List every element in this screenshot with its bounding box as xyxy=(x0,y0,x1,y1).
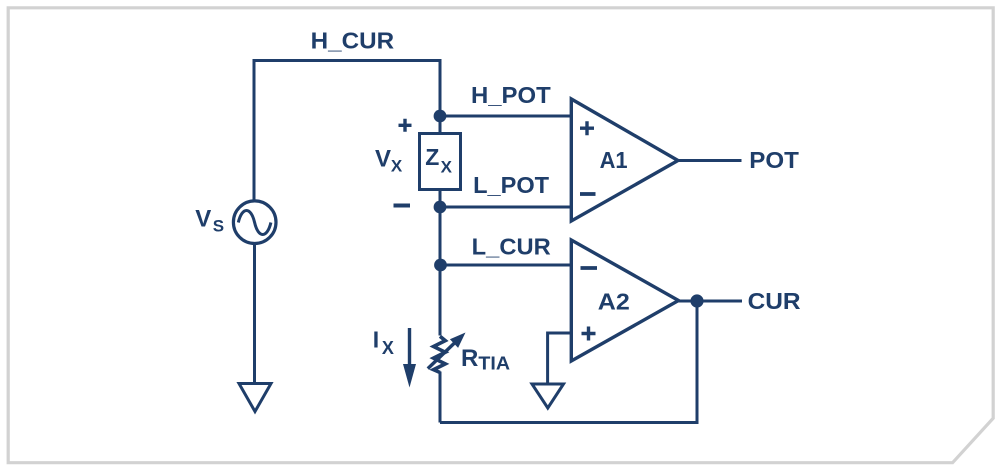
svg-text:X: X xyxy=(441,158,453,177)
wire bottom feedback xyxy=(440,301,697,423)
current Ix arrow xyxy=(408,328,411,366)
op-amp A1 plus xyxy=(580,121,594,135)
minus sign Zx xyxy=(394,204,411,208)
svg-text:POT: POT xyxy=(749,147,799,173)
node L_CUR xyxy=(434,259,447,272)
svg-text:H_POT: H_POT xyxy=(471,82,551,108)
svg-text:V: V xyxy=(195,205,211,232)
source VS circle xyxy=(233,201,276,244)
svg-text:R: R xyxy=(461,345,478,372)
node CUR output xyxy=(690,294,703,307)
svg-text:X: X xyxy=(391,157,403,176)
wire Zx to bottom xyxy=(439,190,442,336)
wire A2 output xyxy=(679,300,743,303)
svg-text:L_CUR: L_CUR xyxy=(472,234,551,260)
svg-text:L_POT: L_POT xyxy=(473,172,549,198)
wire L_CUR xyxy=(440,264,571,267)
svg-text:S: S xyxy=(213,217,224,236)
sine wave xyxy=(238,211,271,235)
wire L_POT xyxy=(440,206,571,209)
wire A2 plus input to ground xyxy=(548,333,571,384)
resistor RTIA arrow xyxy=(428,343,455,369)
impedance Zx box xyxy=(420,134,461,190)
ground VS xyxy=(239,384,271,412)
resistor RTIA zigzag xyxy=(434,336,446,372)
plus sign Zx xyxy=(399,119,412,132)
svg-text:Z: Z xyxy=(425,144,439,170)
wire VS bottom xyxy=(253,244,256,384)
op-amp A1 minus xyxy=(580,192,596,196)
svg-text:A2: A2 xyxy=(598,289,630,315)
ground A2 xyxy=(532,384,564,408)
svg-text:A1: A1 xyxy=(600,147,628,173)
svg-text:CUR: CUR xyxy=(748,288,801,314)
svg-text:X: X xyxy=(382,338,394,358)
svg-text:I: I xyxy=(373,327,379,353)
op-amp A2 plus xyxy=(582,327,596,341)
node H_POT xyxy=(434,110,447,123)
svg-text:TIA: TIA xyxy=(478,354,510,374)
svg-text:H_CUR: H_CUR xyxy=(311,28,395,54)
wire below resistor xyxy=(439,372,442,423)
op-amp A1 xyxy=(571,99,678,221)
wire A1 output xyxy=(678,159,742,162)
wire H_CUR top xyxy=(254,61,440,202)
node L_POT xyxy=(434,201,447,214)
op-amp A2 xyxy=(571,240,678,361)
wire H_POT xyxy=(440,115,571,118)
op-amp A2 minus xyxy=(581,266,598,270)
svg-text:V: V xyxy=(375,146,391,173)
